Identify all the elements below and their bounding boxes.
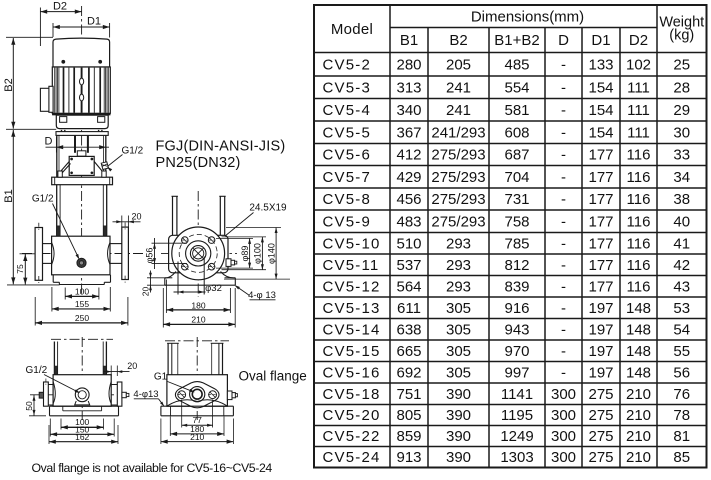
dimension 210 line flange view bbox=[163, 323, 235, 325]
dimension phi100 extension lines bbox=[222, 236, 267, 238]
svg-text:-: - bbox=[561, 343, 566, 360]
flange base slab bbox=[164, 278, 166, 285]
svg-text:913: 913 bbox=[396, 449, 421, 466]
svg-text:-: - bbox=[561, 79, 566, 96]
guard box screws bbox=[71, 158, 73, 160]
svg-text:300: 300 bbox=[551, 428, 576, 445]
coupling hub bbox=[77, 151, 86, 156]
dimension 50 line bbox=[33, 395, 35, 416]
oval view port boss circle bbox=[75, 388, 89, 402]
svg-text:34: 34 bbox=[673, 169, 690, 186]
motor fin base bar bbox=[52, 113, 110, 115]
head bolts bbox=[58, 171, 62, 177]
svg-text:D1: D1 bbox=[591, 32, 610, 49]
svg-text:D2: D2 bbox=[53, 1, 67, 13]
dimension phi89 line bbox=[249, 238, 251, 268]
flange port circle outer bbox=[190, 246, 206, 262]
svg-text:210: 210 bbox=[190, 432, 204, 442]
svg-text:φ140: φ140 bbox=[266, 243, 276, 264]
svg-text:-: - bbox=[561, 191, 566, 208]
svg-text:Oval flange: Oval flange bbox=[239, 369, 307, 384]
svg-text:CV5-12: CV5-12 bbox=[323, 278, 381, 295]
svg-text:305: 305 bbox=[446, 321, 471, 338]
svg-text:-: - bbox=[561, 364, 566, 381]
dimension 20 extension lines flange view bbox=[147, 277, 166, 279]
svg-text:116: 116 bbox=[627, 191, 651, 208]
svg-text:30: 30 bbox=[673, 124, 690, 141]
oval view head block bbox=[53, 375, 111, 407]
oval top view barrel pillars bbox=[167, 343, 169, 374]
svg-text:CV5-16: CV5-16 bbox=[323, 364, 381, 381]
table horizontal grid lines bbox=[390, 27, 657, 29]
svg-text:275: 275 bbox=[588, 428, 613, 445]
svg-text:997: 997 bbox=[504, 364, 529, 381]
svg-text:293: 293 bbox=[446, 257, 471, 274]
svg-text:B1: B1 bbox=[400, 32, 418, 49]
dimension 100 extension lines bbox=[64, 288, 66, 300]
svg-text:704: 704 bbox=[504, 169, 529, 186]
motor cap bolt right bbox=[99, 60, 102, 63]
svg-text:241: 241 bbox=[446, 102, 471, 119]
svg-text:-: - bbox=[561, 257, 566, 274]
svg-text:665: 665 bbox=[396, 343, 421, 360]
port centerline front view bbox=[22, 253, 143, 255]
flange bolt holes bbox=[182, 237, 189, 244]
svg-text:241/293: 241/293 bbox=[431, 124, 485, 141]
svg-text:510: 510 bbox=[396, 235, 421, 252]
motor lifting lug lower bbox=[80, 94, 84, 101]
table outer border bbox=[314, 5, 707, 468]
svg-text:111: 111 bbox=[627, 102, 650, 119]
svg-text:154: 154 bbox=[588, 124, 613, 141]
svg-text:G1: G1 bbox=[154, 371, 168, 382]
port cross hatch bbox=[193, 248, 203, 258]
oval top view base feet bbox=[170, 406, 172, 416]
dimension 20 oval view line bbox=[104, 371, 130, 373]
svg-text:148: 148 bbox=[626, 343, 651, 360]
svg-text:100: 100 bbox=[75, 286, 89, 296]
svg-text:116: 116 bbox=[627, 278, 651, 295]
svg-text:B2: B2 bbox=[449, 32, 467, 49]
svg-text:CV5-10: CV5-10 bbox=[323, 235, 381, 252]
svg-text:CV5-15: CV5-15 bbox=[323, 343, 381, 360]
svg-text:Oval flange is not available f: Oval flange is not available for CV5-16~… bbox=[32, 461, 273, 475]
dimension 180 line flange view bbox=[166, 309, 230, 311]
svg-text:-: - bbox=[561, 169, 566, 186]
svg-text:53: 53 bbox=[673, 300, 690, 317]
svg-text:412: 412 bbox=[396, 147, 421, 164]
svg-text:D1: D1 bbox=[87, 16, 101, 28]
dimension 180 oval extension lines bbox=[169, 417, 171, 437]
oval top view vertical centerline bbox=[196, 337, 198, 420]
svg-text:943: 943 bbox=[504, 321, 529, 338]
svg-text:116: 116 bbox=[627, 235, 651, 252]
svg-text:CV5-7: CV5-7 bbox=[323, 169, 372, 186]
dimension D extension lines bbox=[55, 137, 57, 153]
svg-text:148: 148 bbox=[626, 321, 651, 338]
suction flange bolt ticks bbox=[38, 223, 40, 232]
svg-text:56: 56 bbox=[673, 364, 690, 381]
svg-text:275: 275 bbox=[588, 449, 613, 466]
dimension 75 line bbox=[24, 254, 26, 285]
svg-text:1249: 1249 bbox=[500, 428, 533, 445]
flange view horizontal centerline bbox=[161, 252, 237, 254]
leader for 24.5X19 bbox=[225, 213, 254, 237]
oval view break centerline bbox=[51, 338, 113, 340]
dimension phi32 line bbox=[174, 291, 206, 293]
svg-text:116: 116 bbox=[627, 147, 651, 164]
oval view port bore circle bbox=[78, 391, 86, 399]
dimension 150 oval extension lines bbox=[49, 419, 51, 437]
oval view barrel dark walls bbox=[54, 366, 57, 375]
dimension phi56 line bbox=[154, 238, 156, 269]
dimension phi100 line bbox=[261, 237, 263, 270]
svg-text:D2: D2 bbox=[629, 32, 648, 49]
dimension 20 line flange view bbox=[150, 271, 152, 293]
svg-text:43: 43 bbox=[673, 278, 690, 295]
svg-text:28: 28 bbox=[673, 79, 690, 96]
motor terminal box bbox=[40, 88, 50, 111]
oval view left flange plate bbox=[44, 382, 49, 406]
dimension B1 line bbox=[12, 130, 14, 284]
oval flange shape bbox=[175, 382, 219, 408]
svg-text:CV5-22: CV5-22 bbox=[323, 428, 381, 445]
leader for upper G1/2 bbox=[108, 155, 123, 167]
svg-text:φ32: φ32 bbox=[205, 283, 222, 294]
svg-text:85: 85 bbox=[673, 449, 690, 466]
svg-text:250: 250 bbox=[75, 313, 89, 323]
svg-text:367: 367 bbox=[396, 124, 421, 141]
svg-text:133: 133 bbox=[588, 56, 613, 73]
svg-text:102: 102 bbox=[626, 56, 651, 73]
svg-text:340: 340 bbox=[396, 102, 421, 119]
svg-text:275/293: 275/293 bbox=[431, 147, 485, 164]
dimension 77 extension lines bbox=[181, 400, 183, 428]
svg-text:313: 313 bbox=[396, 79, 421, 96]
svg-text:116: 116 bbox=[627, 213, 651, 230]
svg-text:275: 275 bbox=[588, 407, 613, 424]
flange square body bbox=[169, 235, 228, 272]
motor cap bbox=[53, 38, 110, 67]
dimension D2 extension line bbox=[39, 8, 41, 47]
oval top view volute sweeps bbox=[167, 400, 228, 406]
guard brace right bbox=[94, 162, 102, 172]
svg-text:456: 456 bbox=[396, 191, 421, 208]
svg-text:581: 581 bbox=[504, 102, 529, 119]
guard brace left bbox=[61, 162, 70, 172]
flange hub circle bbox=[186, 241, 211, 266]
motor cap bolt left bbox=[62, 60, 65, 63]
dimension 75 extension bbox=[20, 253, 35, 255]
svg-text:839: 839 bbox=[504, 278, 529, 295]
dimension 77 line bbox=[182, 424, 213, 426]
dimension B2 extension top bbox=[6, 36, 53, 38]
svg-text:-: - bbox=[561, 321, 566, 338]
motor fin body bbox=[52, 67, 110, 113]
svg-text:275: 275 bbox=[588, 386, 613, 403]
dimension D1 line bbox=[53, 26, 110, 28]
dimension B1 extension bottom bbox=[7, 284, 60, 286]
flange bolt circle dashed bbox=[179, 234, 217, 272]
dimension phi32 extension lines bbox=[177, 262, 179, 295]
flange view barrel pillars bbox=[172, 196, 174, 235]
pump head flange bbox=[52, 177, 113, 185]
svg-text:293: 293 bbox=[446, 235, 471, 252]
svg-text:D: D bbox=[45, 136, 53, 148]
oval view base bbox=[50, 405, 119, 407]
svg-text:280: 280 bbox=[396, 56, 421, 73]
svg-text:Dimensions(mm): Dimensions(mm) bbox=[471, 9, 584, 26]
dimension 100 oval extension lines bbox=[60, 419, 62, 430]
pump body bbox=[52, 236, 110, 275]
svg-text:758: 758 bbox=[504, 213, 529, 230]
svg-text:554: 554 bbox=[504, 79, 529, 96]
dimension 210 oval line bbox=[161, 441, 234, 443]
svg-text:D: D bbox=[558, 32, 569, 49]
svg-text:429: 429 bbox=[396, 169, 421, 186]
motor terminal box collar bbox=[49, 86, 53, 112]
dimension 162 oval extension lines bbox=[48, 425, 50, 444]
svg-text:608: 608 bbox=[504, 124, 529, 141]
svg-text:537: 537 bbox=[396, 257, 421, 274]
svg-text:CV5-6: CV5-6 bbox=[323, 147, 372, 164]
svg-text:687: 687 bbox=[504, 147, 529, 164]
svg-text:111: 111 bbox=[627, 124, 650, 141]
svg-text:4-φ13: 4-φ13 bbox=[133, 389, 158, 400]
svg-text:CV5-4: CV5-4 bbox=[323, 102, 372, 119]
svg-text:CV5-20: CV5-20 bbox=[323, 407, 381, 424]
dimension 210 oval extension lines bbox=[160, 419, 162, 445]
oval view barrel bbox=[53, 342, 55, 375]
svg-text:CV5-2: CV5-2 bbox=[323, 56, 372, 73]
svg-text:38: 38 bbox=[673, 191, 690, 208]
svg-text:275/293: 275/293 bbox=[431, 213, 485, 230]
svg-text:78: 78 bbox=[673, 407, 690, 424]
svg-text:210: 210 bbox=[626, 386, 651, 403]
oval view right flange hub bbox=[111, 384, 117, 386]
leader for 4-phi13 bbox=[236, 286, 250, 296]
svg-text:300: 300 bbox=[551, 407, 576, 424]
svg-text:916: 916 bbox=[504, 300, 529, 317]
svg-text:293: 293 bbox=[446, 278, 471, 295]
svg-text:197: 197 bbox=[588, 364, 613, 381]
svg-text:300: 300 bbox=[551, 386, 576, 403]
svg-text:76: 76 bbox=[673, 386, 690, 403]
svg-text:φ100: φ100 bbox=[253, 243, 263, 264]
svg-text:305: 305 bbox=[446, 343, 471, 360]
oval top view base bbox=[161, 405, 234, 407]
dimension B2 line bbox=[12, 38, 14, 129]
dimension 20 line front view bbox=[113, 221, 141, 223]
dimension phi140 line bbox=[275, 228, 277, 280]
svg-text:B1: B1 bbox=[3, 189, 15, 202]
oval flange port bore bbox=[192, 389, 202, 399]
discharge flange plate bbox=[122, 227, 129, 279]
svg-text:116: 116 bbox=[627, 169, 651, 186]
svg-text:611: 611 bbox=[397, 300, 421, 317]
svg-text:40: 40 bbox=[673, 213, 690, 230]
pump barrel bbox=[56, 185, 58, 237]
air vent valve bbox=[101, 162, 108, 170]
svg-text:1303: 1303 bbox=[500, 449, 533, 466]
svg-text:162: 162 bbox=[75, 432, 89, 442]
svg-text:859: 859 bbox=[396, 428, 421, 445]
svg-text:25: 25 bbox=[673, 56, 690, 73]
svg-text:197: 197 bbox=[588, 300, 613, 317]
discharge flange bolt ticks bbox=[124, 222, 126, 231]
center line of pump front view bbox=[81, 6, 83, 297]
dimension D1 extension lines bbox=[52, 23, 54, 37]
svg-text:300: 300 bbox=[551, 449, 576, 466]
dimension 155 line bbox=[52, 308, 110, 310]
suction hub bbox=[43, 243, 52, 245]
dimension D2 line bbox=[40, 11, 81, 13]
svg-text:390: 390 bbox=[446, 428, 471, 445]
svg-text:G1/2: G1/2 bbox=[121, 146, 143, 157]
svg-text:210: 210 bbox=[191, 315, 205, 325]
leader for G1 bbox=[168, 382, 194, 392]
svg-text:148: 148 bbox=[626, 300, 651, 317]
dimension 20 oval view extension lines bbox=[110, 366, 112, 377]
dimension 250 extension lines bbox=[34, 297, 36, 326]
oval view right flange plug bbox=[122, 392, 126, 397]
svg-text:FGJ(DIN-ANSI-JIS): FGJ(DIN-ANSI-JIS) bbox=[156, 139, 286, 155]
svg-text:154: 154 bbox=[588, 79, 613, 96]
svg-text:1195: 1195 bbox=[501, 407, 533, 424]
svg-text:483: 483 bbox=[396, 213, 421, 230]
svg-text:210: 210 bbox=[626, 428, 651, 445]
dimension phi140 extension lines bbox=[226, 227, 281, 229]
svg-text:G1/2: G1/2 bbox=[32, 194, 54, 205]
svg-text:55: 55 bbox=[673, 343, 690, 360]
dimension phi89 extension lines bbox=[216, 237, 253, 239]
body side curves bbox=[52, 243, 54, 265]
motor foot bracket bbox=[56, 115, 108, 129]
svg-text:177: 177 bbox=[588, 278, 613, 295]
svg-text:CV5-18: CV5-18 bbox=[323, 386, 381, 403]
svg-text:812: 812 bbox=[504, 257, 529, 274]
svg-text:20: 20 bbox=[140, 287, 150, 297]
oval view left flange tick bbox=[45, 379, 47, 387]
svg-text:4-φ 13: 4-φ 13 bbox=[248, 290, 276, 301]
svg-text:275/293: 275/293 bbox=[431, 169, 485, 186]
svg-text:970: 970 bbox=[504, 343, 529, 360]
oval top view head block bbox=[167, 375, 228, 407]
svg-text:785: 785 bbox=[504, 235, 529, 252]
dimension 210 extension lines flange view bbox=[162, 288, 164, 328]
svg-text:CV5-24: CV5-24 bbox=[323, 449, 381, 466]
volute sweep left bbox=[165, 272, 176, 278]
svg-text:CV5-3: CV5-3 bbox=[323, 79, 372, 96]
svg-text:-: - bbox=[561, 300, 566, 317]
svg-text:305: 305 bbox=[446, 364, 471, 381]
drain plug bbox=[77, 258, 86, 267]
svg-text:210: 210 bbox=[626, 407, 651, 424]
motor fins bbox=[54, 68, 56, 113]
flange outer circle bbox=[172, 227, 225, 280]
svg-text:-: - bbox=[561, 56, 566, 73]
dimension 180 oval line bbox=[170, 433, 224, 435]
svg-text:81: 81 bbox=[673, 428, 690, 445]
dimension 100 line bbox=[65, 295, 99, 297]
flange view vertical centerline bbox=[197, 191, 199, 297]
svg-text:-: - bbox=[561, 147, 566, 164]
volute sweep right bbox=[221, 272, 236, 278]
svg-text:638: 638 bbox=[396, 321, 421, 338]
stool columns bbox=[56, 135, 58, 177]
svg-text:-: - bbox=[561, 235, 566, 252]
dimension 162 oval line bbox=[49, 441, 118, 443]
oval view head side curves bbox=[53, 382, 55, 404]
oval view right flange plate bbox=[117, 382, 122, 406]
svg-text:29: 29 bbox=[673, 102, 690, 119]
dimension 20 extension lines front view bbox=[121, 216, 123, 228]
discharge hub bbox=[110, 243, 122, 245]
leader for oval 4-phi13 bbox=[159, 399, 164, 406]
svg-text:(kg): (kg) bbox=[669, 27, 694, 43]
svg-text:177: 177 bbox=[588, 235, 613, 252]
stool plate bolt ticks bbox=[61, 130, 63, 132]
svg-text:485: 485 bbox=[504, 56, 529, 73]
svg-text:564: 564 bbox=[396, 278, 421, 295]
oval view left flange hub bbox=[48, 384, 53, 386]
svg-text:CV5-14: CV5-14 bbox=[323, 321, 381, 338]
table vertical grid lines bbox=[389, 5, 391, 468]
svg-text:390: 390 bbox=[446, 449, 471, 466]
svg-text:-: - bbox=[561, 102, 566, 119]
svg-text:PN25(DN32): PN25(DN32) bbox=[156, 155, 241, 171]
shaft coupling bars bbox=[74, 135, 76, 152]
flange port circle bore bbox=[193, 248, 204, 259]
svg-text:390: 390 bbox=[446, 407, 471, 424]
svg-text:24.5X19: 24.5X19 bbox=[249, 203, 287, 214]
coupling guard box bbox=[69, 156, 94, 175]
svg-text:155: 155 bbox=[75, 299, 89, 309]
svg-text:205: 205 bbox=[446, 56, 471, 73]
svg-text:-: - bbox=[561, 213, 566, 230]
svg-text:148: 148 bbox=[626, 364, 651, 381]
pump base front view bbox=[52, 275, 54, 283]
motor lifting lug upper bbox=[80, 78, 84, 85]
svg-text:CV5-13: CV5-13 bbox=[323, 300, 381, 317]
dimension phi56 extension lines bbox=[152, 242, 188, 244]
svg-text:305: 305 bbox=[446, 300, 471, 317]
svg-text:φ56: φ56 bbox=[144, 248, 154, 264]
svg-text:177: 177 bbox=[588, 213, 613, 230]
svg-text:177: 177 bbox=[588, 257, 613, 274]
suction flange plate bbox=[35, 228, 42, 281]
svg-text:210: 210 bbox=[626, 449, 651, 466]
oval flange bolt hole left bbox=[178, 391, 186, 399]
svg-text:20: 20 bbox=[127, 361, 137, 371]
oval view base step bbox=[62, 406, 64, 411]
svg-text:154: 154 bbox=[588, 102, 613, 119]
leader for oval G1/2 bbox=[44, 375, 79, 393]
svg-text:CV5-9: CV5-9 bbox=[323, 213, 372, 230]
motor foot hole right bbox=[98, 117, 105, 123]
dimension 100 oval line bbox=[61, 426, 104, 428]
svg-text:41: 41 bbox=[673, 235, 690, 252]
oval top view side plug bbox=[227, 391, 232, 400]
oval top view break centerline bbox=[165, 340, 229, 342]
svg-text:731: 731 bbox=[504, 191, 529, 208]
oval flange port outer bbox=[190, 387, 205, 402]
svg-text:692: 692 bbox=[396, 364, 421, 381]
leader for left G1/2 bbox=[53, 204, 79, 259]
svg-text:197: 197 bbox=[588, 321, 613, 338]
side plug stub bbox=[226, 259, 231, 267]
svg-text:-: - bbox=[561, 124, 566, 141]
